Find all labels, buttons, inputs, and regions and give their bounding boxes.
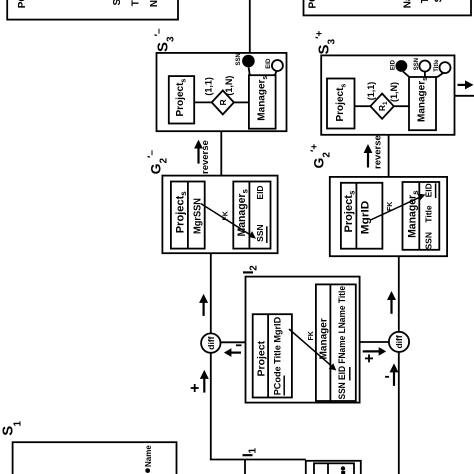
relationship diamond R1 (S'3+) (370, 94, 393, 119)
entity Manager_s (S'3-) (249, 75, 276, 129)
svg-text:Projects: Projects (335, 84, 348, 122)
G'2+ schema box (330, 177, 447, 256)
wire R-Manager (234, 101, 249, 103)
svg-text:reverse: reverse (373, 135, 384, 169)
svg-text:SSN EID FName LName Title: SSN EID FName LName Title (337, 286, 347, 400)
table Manager/SSN EID FName LName Title (I2) (316, 284, 356, 401)
svg-text:(1,N): (1,N) (224, 76, 234, 96)
svg-text:Projects: Projects (343, 190, 357, 233)
node diff (right) (389, 332, 409, 352)
FK arrow (G'2+) (371, 194, 426, 220)
svg-text:FK: FK (308, 331, 315, 340)
attribute EID (open circle) of Manager_s (266, 58, 283, 75)
flow arrow above diff (left) (199, 294, 208, 316)
wire G'2- down to corner (210, 253, 212, 459)
minus arrow below diff (right) (385, 363, 398, 386)
attribute EID (filled circle) of Manager_s (S'3+) (390, 59, 410, 77)
wire diff to I2 (221, 341, 246, 343)
svg-text:PCode: PCode (17, 0, 28, 8)
svg-text:Projects: Projects (175, 191, 189, 234)
wire G'2+ down to bottom edge (398, 256, 400, 474)
I1 inner table (cut) (314, 463, 354, 474)
FK arrow (G'2-) (201, 204, 256, 239)
S'3- ER box (157, 53, 287, 131)
svg-text:EID: EID (266, 58, 272, 69)
label S1 (0, 421, 24, 436)
svg-text:diff: diff (394, 335, 404, 348)
svg-text:PCode Title MgrID: PCode Title MgrID (273, 317, 284, 396)
svg-text:SSN: SSN (423, 232, 433, 249)
wire Project-R1 (355, 105, 371, 107)
svg-text:SSN: SSN (236, 53, 242, 65)
wire: connector from off-image top to S'3- box (249, 0, 251, 55)
svg-text:Title: Title (420, 0, 431, 3)
attribute bullet Name (S1) (144, 445, 153, 473)
wire R1-Manager (394, 105, 409, 107)
S'3+ ER box (321, 55, 454, 134)
svg-text:Managers: Managers (407, 190, 421, 238)
svg-text:(1,N): (1,N) (389, 82, 399, 102)
svg-text:reverse: reverse (200, 140, 211, 174)
I2 schema box (246, 277, 360, 403)
label I2 (240, 265, 260, 275)
svg-text:FK: FK (387, 202, 394, 211)
table Project_s/MgrSSN (G'2-) (171, 182, 205, 249)
attribute Title (open circle) of Manager_s (S'3+) (434, 59, 450, 77)
svg-text:2: 2 (249, 265, 260, 271)
FK arrow (I2) (289, 329, 336, 371)
wire Project-R (194, 101, 212, 103)
svg-text:Name: Name (144, 445, 153, 467)
plus arrow below diff (left) (191, 370, 209, 393)
svg-text:Manager: Manager (319, 318, 330, 359)
svg-text:Title: Title (131, 0, 142, 6)
svg-text:Name: Name (403, 0, 414, 8)
box A: cut-off schema table top-left (7, 0, 178, 20)
table Project_s/MgrID (G'2+) (341, 183, 383, 249)
reverse arrow (left) (194, 140, 211, 174)
wire I2 to diff (right) (360, 341, 389, 343)
svg-text:EID: EID (423, 183, 433, 197)
svg-text:Managers: Managers (256, 76, 269, 121)
svg-text:Managers: Managers (417, 77, 430, 122)
entity Manager_s (S'3+) (409, 77, 436, 130)
I1 schema box (cut) (306, 461, 361, 474)
label I1 (240, 448, 259, 458)
flow arrow above diff (right) (387, 291, 396, 314)
svg-text:Title: Title (423, 205, 433, 223)
reverse arrow (right) (364, 135, 384, 169)
wire S'3+ to G'2+ (388, 135, 390, 177)
node diff (left) (201, 333, 220, 352)
svg-text:Name: Name (149, 0, 160, 7)
svg-text:1: 1 (248, 448, 259, 454)
wire corner to I1 (210, 459, 306, 461)
attribute SSN (open circle) of Manager_s (S'3+) (414, 58, 431, 77)
svg-text:Project: Project (256, 340, 268, 376)
flow arrow exiting right (458, 80, 474, 89)
relationship diamond R (S'3-) (212, 91, 234, 115)
svg-text:SSN: SSN (414, 58, 420, 70)
wire exiting right from S'3+ (455, 95, 474, 97)
minus arrow into diff (left) (224, 344, 242, 357)
svg-text:(1,1): (1,1) (203, 77, 213, 96)
svg-text:EID: EID (255, 185, 265, 199)
svg-text:EID: EID (390, 59, 396, 70)
svg-text:diff: diff (206, 336, 216, 349)
attribute SSN (filled circle) of Manager_s (236, 53, 255, 75)
wire stub down from wire (244, 460, 246, 474)
entity Project_s (S'3+) (327, 79, 355, 129)
entity Project_s (S'3-) (169, 76, 194, 123)
svg-text:SSN: SSN (255, 224, 265, 241)
svg-text:SSN: SSN (112, 0, 123, 6)
G'2- schema box (162, 176, 277, 254)
svg-text:SSN: SSN (434, 0, 445, 3)
plus arrow into diff (right) (363, 347, 387, 362)
svg-text:Projects: Projects (175, 79, 188, 117)
svg-text:MgrID: MgrID (360, 201, 372, 235)
svg-text:(1,1): (1,1) (366, 82, 376, 101)
svg-text:R: R (218, 99, 228, 105)
svg-text:1: 1 (13, 421, 24, 427)
svg-text:Title: Title (434, 59, 440, 72)
svg-text:PCode: PCode (308, 0, 319, 9)
svg-text:FK: FK (223, 211, 230, 220)
table Project/PCode Title MgrID (I2) (253, 314, 292, 397)
table Manager_s/SSN,EID (G'2-) (233, 182, 270, 249)
box A': cut-off schema table top-right (304, 0, 472, 15)
table Manager_s/SSN Title EID (G'2+) (403, 182, 440, 250)
S1 schema box (cut) (13, 442, 177, 474)
wire S'3- to G'2- (220, 131, 222, 175)
